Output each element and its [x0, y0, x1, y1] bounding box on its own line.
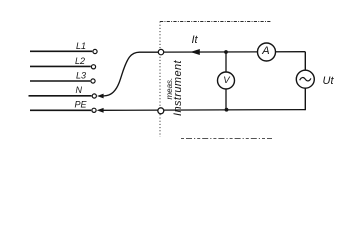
- svg-text:PE: PE: [75, 99, 88, 109]
- wire voltmeter branch bottom: [225, 89, 227, 110]
- wire N line: [29, 95, 92, 97]
- svg-text:L2: L2: [75, 56, 85, 66]
- junction bottom: [225, 108, 229, 112]
- wire right vertical top: [304, 52, 306, 70]
- arrow into N terminal: [97, 94, 104, 99]
- arrow into PE terminal: [97, 108, 104, 113]
- svg-text:L1: L1: [76, 41, 86, 51]
- svg-text:A: A: [261, 45, 269, 57]
- source Ut: [296, 70, 314, 88]
- wire right vertical bottom: [304, 88, 306, 110]
- terminal instrument top: [158, 49, 163, 54]
- wire L1 line: [30, 50, 92, 52]
- terminal L2: [91, 65, 95, 69]
- wire circuit top: [163, 51, 305, 53]
- svg-text:Instrument: Instrument: [172, 59, 184, 116]
- instrument boundary left dotted: [159, 22, 161, 138]
- wire PE line: [30, 109, 91, 111]
- ammeter A: [258, 43, 276, 61]
- svg-text:L3: L3: [76, 70, 86, 80]
- instrument boundary bottom dashed: [181, 138, 272, 140]
- wire L2 line: [30, 65, 91, 67]
- terminal PE: [92, 108, 96, 112]
- wire N-to-instrument S-curve: [103, 52, 158, 96]
- voltmeter V: [218, 72, 235, 89]
- terminal L1: [93, 49, 97, 53]
- junction top: [224, 50, 228, 54]
- terminal N: [92, 94, 96, 98]
- wire PE-to-circuit bottom: [103, 109, 305, 112]
- wire L3 line: [30, 80, 90, 82]
- svg-text:It: It: [192, 34, 199, 46]
- instrument boundary top dashed: [160, 21, 271, 23]
- wire voltmeter branch top: [225, 52, 227, 72]
- arrow current It: [190, 49, 200, 55]
- terminal L3: [91, 79, 95, 83]
- terminal instrument bottom: [158, 108, 164, 114]
- svg-text:N: N: [76, 85, 83, 95]
- svg-text:Ut: Ut: [323, 75, 335, 87]
